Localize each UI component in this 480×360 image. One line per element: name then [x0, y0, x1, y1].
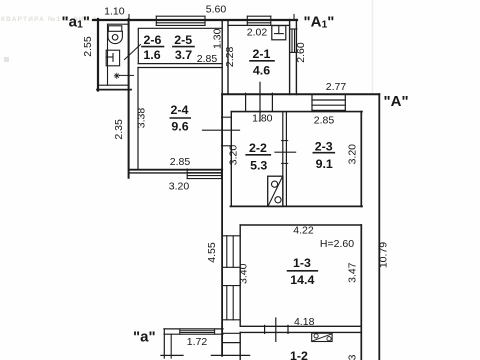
underline 2-2: [246, 154, 270, 156]
svg-text:"а": "а": [133, 329, 156, 346]
door D4 leaf: [203, 129, 240, 131]
svg-text:3.47: 3.47: [347, 262, 359, 283]
svg-text:3.20: 3.20: [347, 144, 359, 165]
wall: bathroom a1 west exterior: [97, 19, 99, 91]
wall: divider 2-2|2-3 west line: [282, 112, 284, 207]
svg-text:2.85: 2.85: [197, 53, 218, 65]
svg-text:1.80: 1.80: [252, 113, 273, 125]
door from porch: opening bottom line: [223, 342, 240, 344]
svg-text:2.60: 2.60: [295, 42, 307, 63]
svg-text:2.28: 2.28: [224, 47, 236, 68]
fixture: stove in 2-2: [268, 176, 283, 206]
svg-text:2-3: 2-3: [315, 140, 333, 154]
stove symbol bar: [275, 33, 284, 35]
room 1-2 north wall: [240, 331, 361, 333]
stove circle left: [314, 334, 318, 338]
underline 2-4: [170, 117, 190, 119]
porch west wall line1: [163, 329, 165, 358]
svg-text:2.02: 2.02: [247, 27, 268, 39]
svg-text:2-6: 2-6: [144, 33, 162, 47]
svg-text:3: 3: [347, 354, 359, 360]
wall: 2-1 east band west line: [289, 20, 291, 95]
fixture: sink faucet stem: [112, 54, 114, 62]
svg-text:1.10: 1.10: [104, 5, 125, 17]
svg-text:3.20: 3.20: [169, 180, 190, 192]
porch south wall left: [161, 354, 183, 356]
door D4 jamb bottom: [222, 145, 232, 147]
stove circle bottom: [275, 197, 281, 203]
door D1 leaf: [259, 82, 261, 121]
room 2-1 box top: [228, 24, 290, 26]
svg-text:2.35: 2.35: [113, 119, 125, 140]
svg-text:9.6: 9.6: [171, 120, 188, 134]
svg-text:"А1": "А1": [304, 14, 335, 31]
room 2-4 west interior line: [137, 68, 139, 170]
porch west wall line2: [170, 334, 172, 358]
window W24 on 2-4 south wall: [187, 169, 221, 179]
svg-text:2-1: 2-1: [253, 47, 271, 61]
door D2 jamb bottom: [282, 162, 288, 164]
svg-text:2.77: 2.77: [326, 81, 347, 93]
room 2-4 south wall: [129, 169, 222, 171]
svg-text:5.60: 5.60: [206, 4, 227, 16]
svg-text:2.55: 2.55: [82, 36, 94, 57]
wall: bathroom interior north line: [108, 23, 129, 25]
svg-text:9.1: 9.1: [316, 157, 333, 171]
svg-text:4.55: 4.55: [206, 242, 218, 263]
room 2-4 south wall outer line: [130, 172, 222, 174]
wall: 2-1 east band east line: [295, 20, 297, 95]
wall: top exterior of annex A1: [93, 19, 297, 21]
underline 1-3: [288, 270, 318, 272]
svg-text:4.6: 4.6: [253, 63, 270, 77]
room 1-3 east wall (continues as 1-2 east): [360, 225, 362, 360]
svg-text:"А": "А": [384, 93, 409, 110]
underline 2-3: [313, 152, 334, 154]
svg-text:1-2: 1-2: [290, 349, 308, 360]
door D3 jamb left: [264, 325, 266, 333]
door D1 jamb right: [271, 93, 273, 111]
stove circle right: [327, 337, 331, 341]
door D3 leaf: [275, 318, 277, 341]
faint scan fold line: [372, 0, 374, 93]
fixture: lamp symbol: [114, 73, 119, 78]
wall: main block west exterior: [221, 94, 223, 356]
wall: room 2-3 east interior: [360, 112, 362, 207]
wall: main block east exterior: [378, 94, 380, 360]
svg-text:1-3: 1-3: [293, 256, 311, 270]
stove diagonal: [313, 334, 332, 341]
porch a north wall line2: [164, 333, 223, 335]
underline 2-1: [250, 60, 274, 62]
svg-text:5.3: 5.3: [250, 158, 267, 172]
fixture: toilet circle: [112, 35, 118, 41]
fixture: stove in 1-2: [312, 333, 332, 341]
svg-text:14.4: 14.4: [290, 273, 314, 287]
door D2 jamb top: [282, 140, 288, 142]
wall: 2-5/2-4 divider lower line: [138, 67, 222, 69]
fixture: sink faucet bar: [106, 56, 113, 58]
wall: bathroom interior west line: [107, 24, 109, 85]
dim tick right end 5.60: [293, 15, 295, 21]
window W6 on west wall: [222, 286, 240, 320]
fixture: sink square: [106, 50, 119, 66]
faint scan mark: [4, 57, 9, 62]
door D1 jamb left: [245, 93, 247, 111]
wall: bathroom a1 south exterior: [97, 89, 131, 91]
svg-text:10.79: 10.79: [378, 242, 390, 268]
dim tick 1.10/5.60: [128, 15, 130, 21]
svg-text:3.40: 3.40: [237, 263, 249, 284]
fixture: stove in 2-1: [272, 26, 286, 40]
porch a north wall line1: [164, 328, 223, 330]
window W7 on porch north wall: [180, 329, 215, 334]
porch south wall right / threshold: [211, 354, 249, 356]
wall: rooms 2-2/2-3 south interior: [231, 205, 363, 207]
svg-text:3.20: 3.20: [228, 145, 240, 166]
door D3 jamb right: [287, 325, 289, 333]
room 1-3 west wall: [239, 225, 241, 326]
stove symbol stem: [278, 26, 280, 34]
svg-text:4.22: 4.22: [293, 225, 314, 237]
svg-text:1.6: 1.6: [143, 48, 160, 62]
room 1-3 south wall: [240, 325, 361, 327]
leader line to bathroom 2-6: [125, 45, 141, 60]
door D4 jamb top (west wall 2-2): [222, 116, 232, 118]
door from porch: opening top line: [223, 332, 240, 334]
fixture: toilet bowl: [108, 31, 122, 43]
stove circle top: [272, 181, 278, 187]
wall: 2-5/2-4 divider upper line: [138, 63, 222, 65]
window W4 on north wall: [312, 94, 345, 110]
underline 2-5: [173, 46, 194, 48]
room 2-5 box: [138, 28, 222, 63]
wall: divider 2-5|2-1 east line: [227, 20, 229, 94]
window W2 on top wall: [247, 16, 270, 25]
svg-text:2-5: 2-5: [174, 33, 192, 47]
window W1 on top wall: [156, 16, 205, 25]
underline 2-6: [142, 46, 164, 48]
wall: main block north exterior: [222, 93, 379, 95]
svg-text:"а1": "а1": [62, 14, 90, 31]
svg-text:2-2: 2-2: [249, 141, 267, 155]
wall: divider 2-2|2-3 east line: [285, 112, 287, 207]
wall: main west exterior of annex: [128, 19, 130, 178]
svg-text:2.85: 2.85: [170, 156, 191, 168]
wall: rooms 2-2/2-3 north interior: [231, 111, 362, 113]
wall: room 2-2 west interior: [230, 112, 232, 207]
svg-text:2.85: 2.85: [314, 114, 335, 126]
fixture: toilet tank: [108, 26, 121, 32]
wall: divider 2-5|2-1 west line: [221, 20, 223, 170]
svg-text:2-4: 2-4: [171, 103, 189, 117]
svg-text:Н=2.60: Н=2.60: [320, 238, 354, 250]
svg-text:3.7: 3.7: [175, 48, 192, 62]
svg-text:3.38: 3.38: [135, 108, 147, 129]
door D2 leaf: [275, 151, 296, 153]
window W3 on 2-1 east wall: [290, 29, 297, 52]
room 1-2 west wall: [239, 332, 241, 360]
stove diagonal: [268, 177, 282, 206]
room 1-3 north wall: [240, 224, 361, 226]
window W5 on west wall: [222, 236, 240, 267]
wall: bathroom interior south line: [99, 84, 129, 86]
lamp leader line: [120, 74, 134, 76]
svg-text:4.18: 4.18: [294, 316, 315, 328]
svg-text:1.72: 1.72: [187, 336, 208, 348]
